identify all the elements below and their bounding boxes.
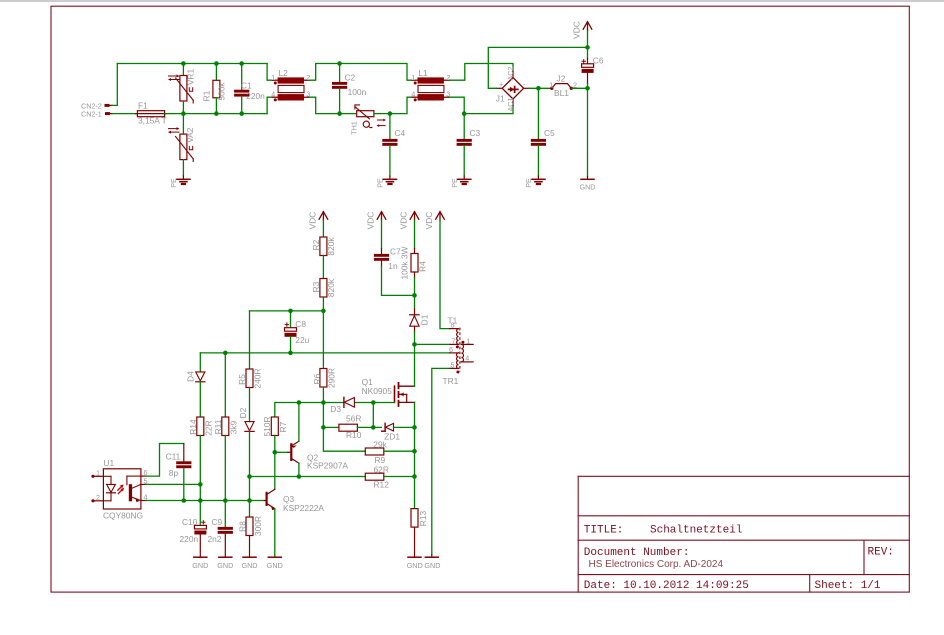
svg-text:VDC: VDC [308, 212, 318, 230]
choke L1 [411, 68, 450, 102]
svg-text:BL1: BL1 [554, 88, 569, 98]
wire source down to ZD1 junction [414, 402, 416, 427]
svg-text:Date: 10.10.2012 14:09:25: Date: 10.10.2012 14:09:25 [584, 580, 749, 592]
junction R9 right [412, 449, 417, 454]
wire rail2 top to L1 [340, 64, 413, 81]
junction row4 C9 [223, 498, 228, 503]
svg-text:J2: J2 [557, 74, 566, 84]
resistor R10 56R [339, 414, 381, 440]
svg-text:C6: C6 [593, 56, 604, 66]
capacitor C1 [234, 64, 265, 114]
wire L2 pin3 to rail2 bottom [310, 97, 357, 113]
capacitor C9 2n2 [208, 501, 233, 558]
capacitor C10 220n (polarized) [180, 501, 207, 558]
svg-text:R10: R10 [346, 430, 362, 440]
svg-text:AC2: AC2 [506, 67, 515, 81]
transistor Q2 KSP2907A (PNP) [288, 441, 348, 470]
capacitor C8 (polarized 22u) [285, 311, 310, 353]
svg-text:820k: 820k [326, 278, 336, 297]
svg-text:290R: 290R [327, 368, 337, 388]
ground GND (top right) [580, 177, 596, 192]
wire gate row (D3 row) [275, 403, 395, 418]
junction row4 C10 [198, 498, 203, 503]
title block frame [578, 476, 909, 592]
transformer winding B arcs [457, 353, 459, 369]
svg-text:C10: C10 [182, 517, 198, 527]
svg-text:510R: 510R [262, 416, 272, 436]
svg-text:Document Number:: Document Number: [584, 547, 690, 559]
wire TH1 to C4 junction to L1 pin4 [374, 97, 413, 113]
resistor R3 [311, 278, 336, 311]
capacitor C5 [531, 88, 555, 176]
junction row4 R8 [247, 498, 252, 503]
junction VDC rail C6 [585, 45, 590, 50]
wire R10 row [323, 426, 339, 428]
svg-text:C4: C4 [395, 128, 406, 138]
wire top rail L [117, 63, 267, 65]
svg-text:R9: R9 [375, 455, 386, 465]
svg-text:PE: PE [524, 178, 533, 188]
wire R12 row [299, 476, 365, 478]
resistor R2 [311, 237, 336, 279]
wire F1 to bottom rail L [165, 113, 184, 115]
svg-text:3,15A T: 3,15A T [138, 116, 167, 126]
svg-text:NK0905: NK0905 [362, 386, 393, 396]
svg-text:HS Electronics Corp. AD-2024: HS Electronics Corp. AD-2024 [589, 559, 724, 570]
junction R10 row left [321, 425, 326, 430]
optocoupler U1 CQY80NG [91, 458, 147, 521]
mosfet Q1 NK0905 [362, 377, 415, 407]
svg-text:F1: F1 [138, 101, 148, 111]
junction C6/J2 [585, 86, 590, 91]
transformer T1 TR1 [443, 315, 474, 386]
svg-text:2: 2 [573, 81, 577, 90]
svg-text:C2: C2 [345, 72, 356, 82]
svg-text:C3: C3 [470, 128, 481, 138]
junction D2 bottom [247, 474, 252, 479]
bridge rectifier J1 [496, 67, 529, 112]
junction R11 top [223, 351, 228, 356]
junction Q2 base / R7 [273, 450, 278, 455]
svg-text:TITLE:: TITLE: [584, 525, 624, 537]
svg-text:PE: PE [450, 178, 459, 188]
svg-text:AC1: AC1 [506, 98, 515, 112]
wire bridge minus to C5 junction [529, 87, 550, 89]
svg-text:L1: L1 [418, 68, 428, 78]
svg-text:VA2: VA2 [185, 127, 195, 143]
svg-text:TR1: TR1 [443, 376, 459, 386]
svg-text:R6: R6 [312, 373, 322, 384]
junction row4 C11 [182, 498, 187, 503]
junction TH1/C4 [388, 111, 393, 116]
svg-text:1: 1 [411, 73, 415, 82]
resistor R13 [411, 477, 428, 558]
wire D1 to TR1 pin7 [415, 343, 451, 345]
junction D1/pin7/drain [412, 342, 417, 347]
svg-text:820k: 820k [326, 237, 336, 256]
junction Q2 row476 [297, 474, 302, 479]
wire U1 pin5 row [146, 483, 200, 485]
svg-text:C5: C5 [544, 128, 555, 138]
svg-text:GND: GND [192, 561, 208, 570]
wire U1 pin4 row to Q3 base [146, 500, 264, 502]
svg-text:220n: 220n [180, 534, 199, 544]
ground GND (Q3) [267, 557, 283, 570]
svg-text:1: 1 [550, 81, 554, 90]
window top edge line [0, 0, 944, 2]
svg-text:500k: 500k [216, 82, 226, 101]
svg-text:4: 4 [271, 90, 275, 99]
wire Q2 emitter up to gate row [298, 403, 300, 442]
wire source column through R9 row [414, 427, 416, 451]
svg-text:PE: PE [376, 178, 385, 188]
capacitor C2 [332, 64, 367, 114]
wire bottom rail L [183, 113, 267, 115]
svg-text:R4: R4 [417, 261, 427, 272]
wire Q3 emitter down to GND [274, 509, 276, 558]
svg-text:R12: R12 [374, 479, 390, 489]
capacitor C7 [374, 247, 415, 296]
svg-text:1: 1 [96, 468, 100, 477]
svg-text:1: 1 [466, 336, 470, 345]
connector pin CN2-1 [81, 110, 113, 119]
svg-text:2: 2 [96, 493, 100, 502]
supply VDC (TR1 column) [424, 212, 449, 329]
svg-text:VDC: VDC [399, 212, 409, 230]
svg-text:CN2-1: CN2-1 [81, 110, 102, 119]
svg-text:VDC: VDC [572, 21, 582, 39]
junction C8 bottom [288, 351, 293, 356]
svg-text:GND: GND [580, 183, 596, 192]
svg-text:VDC: VDC [366, 212, 376, 230]
wire R3 junction down to R6 [322, 311, 324, 369]
svg-text:VDC: VDC [424, 212, 434, 230]
varistor VA2 [168, 114, 195, 176]
resistor R1 [201, 64, 226, 114]
svg-text:CQY80NG: CQY80NG [103, 510, 143, 520]
wire CN2-1 to F1 [113, 113, 138, 115]
junction gate row R6 [321, 400, 326, 405]
resistor R7 510R [262, 416, 288, 452]
ground GND (C10) [192, 557, 208, 570]
svg-text:R7: R7 [278, 421, 288, 432]
svg-text:56R: 56R [346, 414, 361, 424]
wire CN2-2 up to top rail [112, 64, 117, 106]
resistor R5 240R [237, 311, 263, 422]
svg-text:220n: 220n [246, 91, 265, 101]
svg-text:1: 1 [271, 73, 275, 82]
wire U1 pin6 up to C11 [146, 444, 184, 477]
jumper J2 BL1 [550, 74, 588, 99]
resistor R14 22R [188, 417, 214, 484]
junction top rail R1 [214, 61, 219, 66]
svg-text:62R: 62R [374, 464, 389, 474]
varistor VR1 [168, 64, 196, 114]
junction C3 [462, 111, 467, 116]
junction source column ZD1 [412, 425, 417, 430]
svg-text:100n: 100n [348, 87, 367, 97]
svg-text:D4: D4 [186, 371, 196, 382]
fuse F1 [136, 101, 167, 126]
svg-text:100k 3W: 100k 3W [400, 246, 410, 279]
svg-text:GND: GND [407, 561, 423, 570]
svg-text:KSP2907A: KSP2907A [307, 461, 348, 471]
junction R3 row [321, 309, 326, 314]
ground PE (C4) [376, 176, 397, 188]
svg-text:Sheet: 1/1: Sheet: 1/1 [815, 580, 881, 592]
transistor Q3 KSP2222A (NPN) [264, 489, 324, 513]
resistor R8 300R [238, 501, 264, 558]
junction C8 top [288, 309, 293, 314]
junction bottom rail VA2 [181, 111, 186, 116]
ground PE (C5) [524, 176, 545, 188]
svg-text:8p: 8p [169, 468, 179, 478]
svg-text:VR1: VR1 [186, 69, 196, 86]
connector pin CN2-2 [81, 101, 112, 110]
svg-text:PE: PE [169, 178, 178, 188]
wire row R3 to C8/R5 [250, 310, 324, 312]
svg-text:GND: GND [217, 561, 233, 570]
junction R10/ZD1 [371, 425, 376, 430]
svg-text:REV:: REV: [868, 547, 894, 559]
svg-text:R5: R5 [237, 374, 247, 385]
svg-text:5: 5 [451, 361, 455, 370]
svg-text:3k9: 3k9 [228, 420, 238, 434]
junction R12 right [412, 474, 417, 479]
wire bridge plus up to VDC rail [488, 47, 587, 88]
wire R7 column down to Q3 collector [274, 452, 276, 489]
svg-text:KSP2222A: KSP2222A [283, 503, 324, 513]
svg-text:R1: R1 [201, 90, 211, 101]
wire TR1 pin5 down [432, 368, 450, 554]
capacitor C4 [382, 114, 405, 176]
svg-text:4: 4 [411, 90, 415, 99]
supply VDC (R4 column) [399, 212, 419, 254]
svg-text:Schaltnetzteil: Schaltnetzteil [650, 525, 742, 537]
wire row TR1 pin6 long [200, 352, 450, 354]
wire D2 row to Q2 [250, 476, 299, 478]
ground PE (C3) [450, 176, 471, 188]
svg-text:GND: GND [424, 561, 440, 570]
svg-text:29k: 29k [373, 439, 387, 449]
svg-text:U1: U1 [103, 458, 114, 468]
resistor R4 100k 3W [400, 246, 428, 295]
capacitor C11 8p [166, 444, 192, 501]
resistor R6 290R [312, 368, 337, 403]
wire L1 pin2 to bridge AC2 [449, 64, 513, 81]
junction bridge/C5 [536, 86, 541, 91]
ground GND (TR1 pin5) [424, 555, 440, 571]
svg-text:22R: 22R [203, 420, 213, 435]
thermistor TH1 [349, 105, 386, 135]
ground GND (R13) [407, 557, 423, 570]
resistor R11 3k9 [213, 353, 239, 501]
ground GND (R8) [242, 557, 258, 570]
diode D2 [238, 407, 254, 476]
wire top rail to L2 pin1 [267, 64, 272, 81]
svg-text:C9: C9 [212, 517, 223, 527]
junction rail2 top C2 [337, 61, 342, 66]
choke L2 [271, 68, 310, 102]
svg-text:22u: 22u [295, 335, 309, 345]
resistor R12 62R [365, 464, 414, 489]
svg-text:+: + [499, 80, 503, 89]
svg-text:6: 6 [449, 345, 453, 354]
supply VDC (R2 column) [308, 212, 328, 237]
wire D2 junction down to row4 [249, 477, 251, 501]
ground GND (C9) [217, 557, 233, 570]
svg-text:R11: R11 [213, 419, 223, 434]
svg-text:2n2: 2n2 [208, 534, 222, 544]
wire bottom rail to L2 pin4 [267, 97, 272, 113]
svg-text:1n: 1n [388, 261, 398, 271]
junction bottom rail C1 [239, 111, 244, 116]
ground PE (VA2) [169, 176, 190, 188]
capacitor C3 [457, 114, 481, 176]
resistor R9 29k [365, 439, 414, 465]
diode D4 [186, 353, 205, 417]
junction C7/R4 [412, 293, 417, 298]
svg-text:GND: GND [242, 561, 258, 570]
svg-text:GND: GND [267, 561, 283, 570]
svg-text:300R: 300R [253, 516, 263, 536]
wire R6 column down to R9 row [323, 403, 365, 452]
junction bottom rail R1 [214, 111, 219, 116]
capacitor C6 (polarized) [582, 47, 604, 88]
svg-text:R3: R3 [311, 281, 321, 292]
wire C6 junction down to GND [587, 88, 589, 176]
svg-text:D1: D1 [420, 314, 430, 325]
wire source column through R12 row [414, 451, 416, 476]
junction gate row ZD1 branch [371, 400, 376, 405]
svg-text:240R: 240R [253, 368, 263, 388]
wire R7 to Q2 base [275, 451, 288, 453]
wire ZD1 branch vertical [372, 403, 374, 428]
wire Q2 collector down to row476 [298, 463, 300, 476]
junction top rail VR1 [181, 61, 186, 66]
svg-text:R2: R2 [311, 239, 321, 250]
diode D1 [410, 295, 430, 344]
junction top rail C1 [239, 61, 244, 66]
svg-text:C11: C11 [166, 451, 181, 461]
svg-text:TH1: TH1 [349, 121, 358, 135]
wire R14 column down to row4 [199, 484, 201, 500]
supply VDC (C7 column) [366, 212, 386, 254]
junction gate row Q2 [297, 400, 302, 405]
svg-text:R13: R13 [418, 510, 428, 526]
svg-text:C8: C8 [295, 319, 306, 329]
svg-text:4: 4 [465, 353, 469, 362]
svg-text:8: 8 [451, 321, 455, 330]
svg-text:C1: C1 [241, 81, 252, 91]
svg-text:R14: R14 [188, 419, 198, 435]
svg-text:D2: D2 [238, 407, 248, 418]
zener diode ZD1 [382, 423, 415, 441]
wire L2 pin2 to rail2 [310, 64, 340, 81]
junction pin5/R14 [198, 482, 203, 487]
svg-text:J1: J1 [496, 94, 505, 104]
svg-text:R8: R8 [238, 521, 248, 532]
diode D3 [330, 397, 354, 414]
svg-text:D3: D3 [330, 404, 341, 414]
svg-text:L2: L2 [279, 68, 289, 78]
supply VDC (top right) [572, 21, 592, 47]
wire drain up to pin7 junction [414, 344, 416, 386]
transformer secondary arcs [461, 344, 463, 362]
wire L1 pin3 to C3 junction to bridge AC1 [449, 97, 513, 113]
junction rail2 bottom C2 [337, 111, 342, 116]
